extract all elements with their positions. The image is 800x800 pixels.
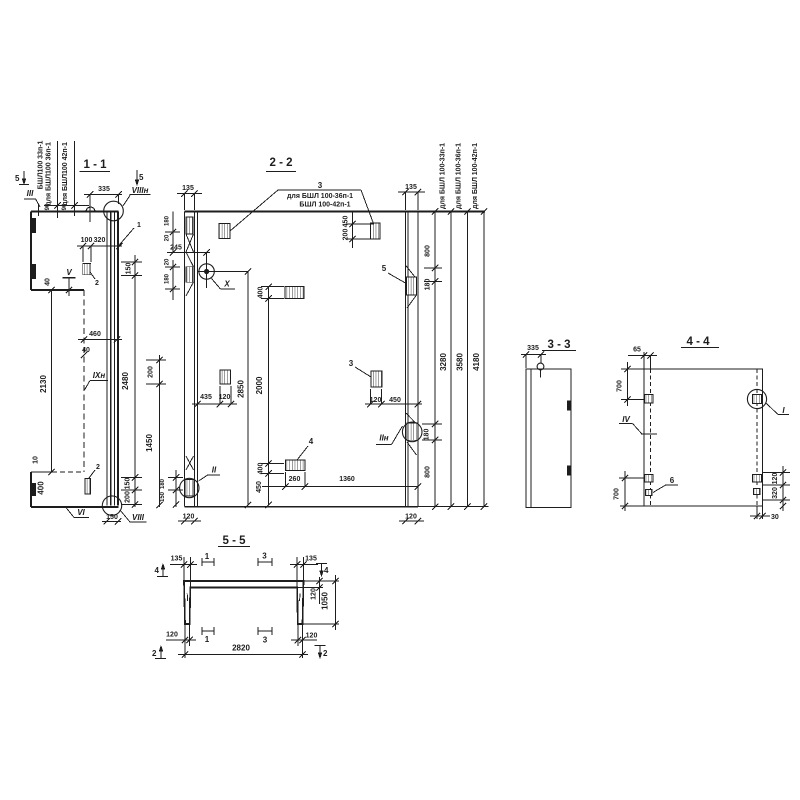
- svg-text:VI: VI: [77, 508, 85, 517]
- svg-text:135: 135: [305, 556, 317, 563]
- svg-text:20: 20: [165, 258, 171, 265]
- right insert small: [754, 489, 761, 495]
- svg-text:20: 20: [165, 234, 171, 241]
- mid dim line A 2850: [247, 272, 249, 506]
- left strip lower web: [186, 456, 194, 470]
- channel profile outline: [184, 581, 304, 624]
- svg-text:400: 400: [37, 481, 46, 495]
- svg-text:1: 1: [137, 222, 141, 229]
- product length line 36p: [467, 212, 469, 507]
- left edge insert mark upper: [32, 218, 37, 233]
- insert rect mid-left: [220, 370, 231, 384]
- svg-text:5 - 5: 5 - 5: [222, 535, 246, 547]
- svg-text:2480: 2480: [121, 372, 130, 390]
- insert rect top-right of pair: [371, 223, 381, 239]
- svg-text:2: 2: [323, 649, 328, 658]
- svg-text:4: 4: [155, 566, 160, 575]
- svg-text:для БШЛ 100-36п-1: для БШЛ 100-36п-1: [287, 193, 353, 200]
- svg-text:200: 200: [125, 491, 132, 503]
- svg-text:150: 150: [160, 491, 166, 502]
- 3-3 edge insert upper: [567, 401, 571, 411]
- bottom flange top edge: [31, 471, 52, 473]
- svg-text:IXн: IXн: [93, 371, 106, 380]
- left strip left edge: [183, 212, 185, 507]
- svg-text:VIII: VIII: [132, 513, 145, 522]
- svg-text:335: 335: [527, 345, 539, 352]
- svg-text:335: 335: [98, 186, 110, 193]
- left edge insert mark lower: [32, 483, 37, 496]
- svg-text:450: 450: [343, 216, 350, 228]
- svg-text:для БШЛ 100-36п-1: для БШЛ 100-36п-1: [456, 143, 463, 209]
- svg-text:150: 150: [126, 263, 133, 275]
- svg-text:5: 5: [382, 264, 387, 273]
- 3-3 body rectangle: [526, 369, 571, 508]
- strip rebar hatch top: [186, 217, 193, 234]
- svg-text:VIIIн: VIIIн: [132, 186, 149, 195]
- svg-text:1450: 1450: [145, 434, 154, 452]
- svg-text:2: 2: [96, 464, 100, 471]
- leg mark left: [186, 594, 188, 602]
- right dim chain 800/180: [434, 212, 436, 507]
- dim 30 bottom: [756, 506, 758, 519]
- svg-text:4180: 4180: [472, 353, 481, 371]
- long edge line 2: [110, 212, 112, 506]
- svg-text:120: 120: [183, 514, 195, 521]
- svg-text:245: 245: [170, 245, 182, 252]
- svg-text:450: 450: [256, 481, 263, 493]
- svg-text:700: 700: [614, 488, 621, 500]
- svg-text:90: 90: [45, 203, 51, 210]
- dim 700 bottom left: [624, 471, 626, 511]
- mid dim line B 2000: [268, 287, 270, 505]
- 4-4 outline: [644, 369, 763, 506]
- insert 3 mid-right rect: [371, 371, 382, 387]
- stud point circle X: [199, 264, 214, 279]
- dim chain 120 320 right: [782, 466, 784, 511]
- svg-text:65: 65: [633, 347, 641, 354]
- svg-text:для БШЛ100 42п-1: для БШЛ100 42п-1: [62, 142, 69, 206]
- svg-text:3580: 3580: [456, 353, 465, 371]
- panel bottom edge: [31, 506, 119, 508]
- svg-text:5: 5: [139, 173, 144, 182]
- svg-text:800: 800: [425, 245, 432, 257]
- left strip bottom insert circle: [185, 480, 194, 497]
- svg-text:120: 120: [166, 632, 178, 639]
- svg-text:II: II: [212, 466, 217, 475]
- long edge line 4: [117, 212, 119, 506]
- svg-text:3: 3: [262, 552, 267, 561]
- svg-text:180: 180: [424, 429, 431, 441]
- hidden web edge dashed: [83, 290, 85, 472]
- panel top edge: [31, 211, 119, 213]
- right strip right edge: [417, 212, 419, 507]
- leg mark right: [299, 594, 301, 602]
- svg-text:135: 135: [182, 185, 194, 192]
- left mini chain bottom: [175, 470, 177, 507]
- svg-text:200: 200: [148, 366, 155, 378]
- svg-text:320: 320: [772, 487, 779, 499]
- right dim chain L1: [134, 255, 136, 507]
- svg-text:2: 2: [152, 649, 157, 658]
- 3-3 loop bump: [537, 363, 544, 370]
- svg-text:90: 90: [62, 203, 68, 210]
- svg-text:30: 30: [771, 514, 779, 521]
- svg-text:1: 1: [205, 635, 210, 644]
- right insert top in circle: [753, 395, 762, 404]
- svg-text:400: 400: [258, 463, 265, 475]
- svg-text:3: 3: [349, 359, 354, 368]
- dim line under variant columns: [44, 204, 89, 206]
- right insert bottom: [753, 475, 762, 483]
- 4-4 dashed axis right: [756, 369, 758, 506]
- svg-text:IV: IV: [622, 415, 630, 424]
- product length line 33p: [450, 212, 452, 507]
- svg-text:3: 3: [263, 636, 268, 645]
- svg-text:435: 435: [200, 394, 212, 401]
- svg-text:450: 450: [389, 397, 401, 404]
- svg-text:III: III: [27, 189, 34, 198]
- svg-text:135: 135: [171, 556, 183, 563]
- svg-text:120: 120: [772, 473, 779, 485]
- dim line 2130: [51, 290, 53, 472]
- svg-text:2820: 2820: [232, 644, 250, 653]
- svg-text:2000: 2000: [255, 376, 264, 394]
- long edge line 1: [106, 212, 108, 506]
- dim 700 top left: [627, 362, 629, 406]
- step edge of top flange: [31, 289, 84, 291]
- panel top edge 2-2: [184, 211, 485, 213]
- svg-text:V: V: [66, 268, 72, 277]
- panel left edge upper: [30, 212, 32, 291]
- svg-text:3 - 3: 3 - 3: [547, 339, 570, 351]
- svg-text:320: 320: [94, 237, 106, 244]
- svg-text:БШЛ100 33п-1: БШЛ100 33п-1: [38, 140, 45, 189]
- separator line 2 between variant texts: [74, 141, 76, 216]
- svg-text:700: 700: [617, 380, 624, 392]
- svg-text:120: 120: [219, 394, 231, 401]
- svg-text:180: 180: [425, 279, 432, 291]
- left mini dim chain: [172, 212, 174, 253]
- 3-3 edge insert lower: [567, 466, 571, 476]
- panel left edge lower: [30, 472, 32, 507]
- svg-text:260: 260: [289, 476, 301, 483]
- corner notch: [38, 204, 40, 216]
- svg-text:БШЛ 100-42п-1: БШЛ 100-42п-1: [299, 202, 350, 209]
- lifting loop bump on top edge: [86, 207, 95, 212]
- left insert small 6: [646, 490, 653, 496]
- svg-text:180: 180: [160, 478, 166, 489]
- svg-text:100: 100: [81, 237, 93, 244]
- svg-text:180: 180: [165, 273, 171, 284]
- svg-text:для БШЛ 100-42п-1: для БШЛ 100-42п-1: [472, 143, 479, 209]
- svg-text:5: 5: [15, 174, 20, 183]
- svg-text:10: 10: [33, 456, 40, 464]
- insert 4 rect: [286, 460, 306, 471]
- product length line 42p: [483, 212, 485, 507]
- insert 2 lower rect: [85, 479, 91, 495]
- svg-text:120: 120: [306, 633, 318, 640]
- left strip right edge double: [193, 212, 195, 507]
- bottom dimension line extension: [418, 506, 489, 508]
- detail circle at top corner: [104, 201, 124, 221]
- right dim chain L2: [159, 355, 161, 507]
- svg-text:1050: 1050: [321, 592, 330, 610]
- long edge line 3: [113, 212, 115, 506]
- svg-text:3280: 3280: [439, 353, 448, 371]
- separator line between variant texts: [57, 141, 59, 218]
- svg-text:1 - 1: 1 - 1: [83, 159, 107, 171]
- svg-text:3: 3: [318, 181, 323, 190]
- svg-text:6: 6: [670, 476, 675, 485]
- svg-text:для БШЛ100 36п-1: для БШЛ100 36п-1: [46, 142, 53, 206]
- 4-4 dashed axis left: [650, 369, 652, 506]
- left insert top: [645, 395, 654, 404]
- svg-text:4 - 4: 4 - 4: [686, 336, 710, 348]
- detail circle I: [747, 389, 766, 408]
- strip rebar hatch 2: [186, 267, 193, 283]
- svg-text:2 - 2: 2 - 2: [269, 157, 292, 169]
- insert 3 top-left rect: [219, 224, 230, 239]
- right strip left edge double: [404, 212, 406, 507]
- insert 2 upper rect: [83, 263, 91, 274]
- svg-text:1360: 1360: [339, 476, 355, 483]
- svg-text:40: 40: [45, 278, 52, 286]
- insert rect near B top: [285, 287, 304, 299]
- panel bottom edge 2-2: [184, 506, 418, 508]
- right strip circle insert: [406, 413, 417, 424]
- svg-text:для БШЛ 100-33п-1: для БШЛ 100-33п-1: [440, 143, 447, 209]
- svg-text:4: 4: [309, 437, 314, 446]
- svg-text:X: X: [223, 280, 230, 289]
- svg-text:460: 460: [89, 331, 101, 338]
- svg-text:150: 150: [125, 478, 132, 490]
- svg-text:180: 180: [165, 215, 171, 226]
- left insert bottom: [645, 475, 654, 483]
- svg-text:2850: 2850: [237, 380, 246, 398]
- svg-text:IIн: IIн: [379, 434, 388, 443]
- svg-text:4: 4: [324, 566, 329, 575]
- svg-text:400: 400: [258, 287, 265, 299]
- detail circle bottom: [102, 496, 121, 515]
- 3-3 inner face line: [530, 369, 532, 508]
- svg-text:2130: 2130: [39, 375, 48, 393]
- svg-text:800: 800: [425, 466, 432, 478]
- svg-text:1: 1: [205, 552, 210, 561]
- svg-text:2: 2: [95, 280, 99, 287]
- right strip rebar 5: [405, 265, 415, 277]
- left edge insert mark mid: [32, 264, 37, 279]
